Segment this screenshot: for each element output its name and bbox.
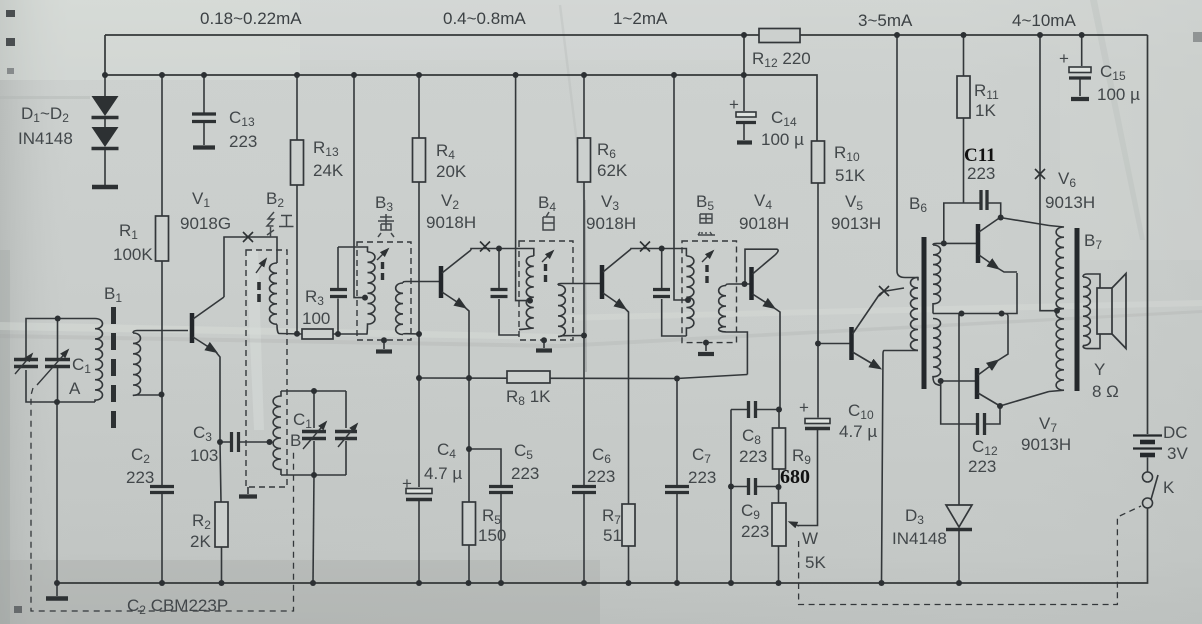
wire V3 collector to B5 [631, 249, 686, 257]
capacitor across B5 primary (x661.7) [662, 249, 687, 337]
wire second (filtered) supply rail [105, 35, 817, 141]
wire battery branch right edge [1147, 35, 1149, 434]
svg-text:62K: 62K [597, 161, 628, 180]
wire V2 emitter down [465, 307, 470, 449]
wire C11 node to V6 base node [944, 203, 964, 243]
svg-text:C11: C11 [964, 145, 996, 166]
svg-text:3~5mA: 3~5mA [858, 11, 913, 30]
ground stub under B3 box [383, 340, 385, 349]
svg-text:1~2mA: 1~2mA [613, 9, 668, 28]
potentiometer W [778, 487, 780, 503]
svg-text:DC: DC [1163, 423, 1188, 442]
inductor B3 secondary [396, 283, 403, 334]
wire V5 collector to B6 primary [879, 288, 904, 295]
resistor R9 [778, 410, 780, 488]
svg-text:24K: 24K [313, 161, 344, 180]
hanzi black [698, 214, 715, 235]
test point x on B7 supply [1035, 169, 1045, 179]
supply tap wire into B4 from rail x515.6 [516, 75, 530, 301]
wire C8/C9 left column [730, 410, 732, 584]
svg-text:9013H: 9013H [831, 214, 881, 233]
diode D2 [104, 119, 106, 127]
inductor B2 primary [270, 263, 278, 324]
wire B5 secondary top to V4 base [726, 284, 750, 286]
adjustable core arrow B2 [256, 259, 266, 273]
capacitor C9 [731, 486, 778, 488]
diode D3 [958, 314, 960, 506]
wire V1 emitter down [216, 352, 221, 443]
wire C1A column down to ground rail [56, 402, 58, 583]
speaker Y [1097, 288, 1112, 334]
ground under C13 [193, 145, 215, 149]
wire top supply rail [105, 34, 1148, 36]
capacitor across B4 primary (x499) [499, 249, 519, 336]
resistor R3 (horizontal) [302, 329, 333, 339]
svg-text:223: 223 [968, 457, 996, 476]
transistor V7 [975, 368, 980, 399]
capacitor C6 [583, 336, 585, 486]
wire B3 primary top [338, 247, 368, 252]
svg-text:100 µ: 100 µ [761, 130, 804, 149]
svg-text:0.18~0.22mA: 0.18~0.22mA [200, 9, 302, 28]
adjustable core arrow B3 [377, 249, 388, 260]
svg-text:223: 223 [741, 522, 769, 541]
electrolytic C10 [817, 344, 819, 418]
resistor R11 [963, 35, 965, 203]
svg-text:150: 150 [478, 526, 506, 545]
ground under D2 [104, 150, 106, 185]
wire B3 secondary bottom to R4 line [403, 333, 419, 336]
svg-text:3V: 3V [1167, 444, 1188, 463]
svg-text:100K: 100K [113, 245, 153, 264]
wire V4 emitter down to detector load [774, 308, 781, 410]
wire V6 collector to B7 top [1000, 218, 1049, 226]
inductor B6 secondary upper [933, 245, 941, 313]
wire V7 emitter up to common bias line [996, 314, 1009, 363]
wire B6 upper secondary top to V6 base [933, 243, 976, 245]
electrolytic C14 [743, 75, 745, 111]
electrolytic C15 [1081, 35, 1083, 66]
hanzi yellow [378, 214, 394, 237]
ground under C14 [737, 140, 752, 144]
wire V6 emitter to common bias line [998, 268, 1018, 272]
supply tap wire into B3 from rail x354 [354, 75, 365, 298]
capacitor C8 [731, 409, 780, 411]
svg-text:+: + [1059, 49, 1069, 68]
wire C1B bottom [281, 474, 346, 476]
svg-text:+: + [729, 95, 739, 114]
svg-text:8 Ω: 8 Ω [1092, 382, 1119, 401]
variable capacitor C1A main [57, 319, 59, 403]
resistor R6 [583, 75, 585, 336]
wire ground bottom rail [57, 509, 1148, 584]
wire R4 line down through AGC node [418, 334, 420, 378]
svg-text:223: 223 [739, 447, 767, 466]
svg-text:223: 223 [511, 464, 539, 483]
svg-text:9018H: 9018H [426, 213, 476, 232]
svg-text:680: 680 [780, 466, 810, 488]
wire V3 emitter down [625, 308, 629, 504]
capacitor across B3 primary (x338) [337, 247, 339, 334]
svg-text:103: 103 [190, 446, 218, 465]
switch K [1143, 472, 1153, 482]
ground under C15 [1071, 97, 1089, 101]
capacitor C12 [941, 381, 1000, 424]
inductor B5 secondary [719, 286, 726, 332]
test point x on V3 collector [640, 242, 650, 252]
inductor B4 secondary [558, 285, 565, 336]
svg-text:+: + [402, 474, 412, 493]
transistor V2 [439, 266, 444, 298]
transistor V6 [976, 224, 981, 263]
svg-text:223: 223 [967, 164, 995, 183]
transformer B6 core bar [922, 237, 927, 389]
wire B3 secondary top to V2 base [403, 282, 439, 284]
oscillator coil B2 shield box (dashed) [246, 250, 287, 487]
svg-text:4~10mA: 4~10mA [1012, 11, 1076, 30]
IF transformer B3 shield box (dashed) [357, 242, 411, 340]
svg-text:51: 51 [603, 526, 622, 545]
variable capacitor C1B main [313, 391, 315, 475]
svg-text:Y: Y [1094, 360, 1105, 379]
wire C1B bottom to ground rail [313, 475, 314, 583]
variable capacitor C1B trimmer [345, 391, 347, 475]
resistor R12 in top rail [759, 29, 800, 43]
svg-text:A: A [69, 379, 81, 398]
resistor R5 [468, 449, 470, 583]
wire B2 primary bottom to R3 [277, 325, 302, 335]
svg-text:9018H: 9018H [739, 214, 789, 233]
inductor B7 primary [1049, 226, 1064, 392]
svg-text:1K: 1K [975, 101, 996, 120]
inductor B6 primary [911, 278, 919, 351]
svg-text:B: B [290, 431, 301, 450]
supply tap wire into B5 from rail x674 [674, 75, 686, 300]
inductor B3 primary [367, 252, 375, 335]
wire B6 primary bottom down to ground rail [882, 351, 919, 584]
capacitor C5 [469, 449, 501, 485]
transistor V1 [190, 313, 195, 343]
capacitor C11 [964, 203, 1001, 218]
IF transformer B4 shield box (dashed) [519, 241, 573, 340]
junction dots [741, 32, 747, 38]
svg-text:+: + [799, 398, 809, 417]
svg-text:5K: 5K [805, 553, 826, 572]
electrolytic C4 [418, 378, 420, 487]
svg-text:0.4~0.8mA: 0.4~0.8mA [443, 9, 526, 28]
svg-text:223: 223 [587, 467, 615, 486]
wire B6 centre tap / bias line [933, 273, 1017, 314]
transformer B7 core bar [1075, 228, 1080, 391]
svg-text:2K: 2K [190, 532, 211, 551]
svg-text:4.7 µ: 4.7 µ [839, 422, 877, 441]
transistor V5 [849, 327, 854, 360]
svg-text:223: 223 [688, 468, 716, 487]
inductor B2 coupling winding [273, 391, 281, 475]
resistor R13 [296, 75, 298, 334]
wire B1 secondary top to V1 base [133, 331, 188, 334]
adjustable core arrow B5 [702, 251, 713, 262]
capacitor C13 [203, 75, 205, 113]
IF transformer B5 shield box (dashed) [682, 241, 737, 343]
wire B1 secondary bottom to R1/C2 node [133, 394, 162, 396]
supply drop to B6 primary top (3~5mA) [897, 35, 918, 278]
tuning gang mechanical link (dashed) [31, 388, 294, 611]
inductor B7 secondary [1083, 277, 1090, 346]
diode D1 [104, 75, 106, 96]
capacitor C7 [676, 379, 678, 486]
svg-text:51K: 51K [835, 166, 866, 185]
wire V1 collector up and over to B2 [224, 237, 277, 297]
inductor B4 primary [519, 256, 534, 330]
svg-text:100: 100 [302, 309, 330, 328]
wire top rail to second rail feed at x744 [743, 35, 745, 75]
inductor B6 secondary lower [933, 319, 941, 386]
transistor V4 [749, 267, 754, 300]
svg-text:9018G: 9018G [180, 214, 231, 233]
battery DC 3V [1133, 434, 1162, 436]
svg-text:20K: 20K [436, 162, 467, 181]
wire B7 secondary to speaker [1083, 274, 1100, 349]
ground stub under B2 box [247, 487, 249, 494]
hanzi red [267, 212, 294, 237]
svg-text:9018H: 9018H [586, 214, 636, 233]
adjustable core arrow B4 [542, 251, 553, 262]
wire V2 collector to B4 [471, 249, 534, 257]
wire B4 secondary top to V3 base [558, 284, 600, 286]
svg-text:223: 223 [126, 468, 154, 487]
inductor B1 primary winding [95, 319, 103, 403]
inductor B1 secondary winding [133, 333, 141, 395]
svg-text:R8 1K: R8 1K [506, 387, 551, 408]
ground stub under B5 box [705, 343, 707, 351]
svg-text:R12 220: R12 220 [752, 49, 811, 70]
svg-text:223: 223 [229, 132, 257, 151]
svg-text:W: W [802, 529, 818, 548]
svg-text:9013H: 9013H [1021, 435, 1071, 454]
svg-text:IN4148: IN4148 [892, 529, 947, 548]
wire V7 collector to B7 bottom [1000, 392, 1049, 407]
wire C1B top [281, 390, 346, 392]
resistor R4 [418, 75, 420, 334]
inductor B5 primary [686, 256, 694, 336]
wire V4 collector loop back to base [745, 249, 778, 284]
wire B7 centre tap to top rail with test x [1040, 35, 1057, 311]
ground stub bottom left [56, 583, 58, 596]
transistor V3 [600, 265, 605, 299]
resistor R10 [812, 141, 825, 183]
ferrite rod B1 (dashed bar) [111, 307, 116, 437]
potentiometer W wiper arrow [790, 522, 800, 526]
svg-text:100 µ: 100 µ [1097, 85, 1140, 104]
capacitor C2 [161, 395, 163, 486]
svg-text:K: K [1163, 478, 1175, 497]
svg-text:9013H: 9013H [1045, 193, 1095, 212]
ground stub under B4 box [543, 340, 545, 348]
variable capacitor C1A trimmer [14, 360, 38, 367]
wire B5 secondary bottom to R8 line [726, 332, 747, 375]
hanzi white [543, 212, 554, 230]
test point x on V5 collector [879, 286, 889, 296]
resistor R8 on AGC line (horizontal) [419, 375, 747, 379]
svg-text:D1~D2: D1~D2 [21, 104, 69, 125]
resistor R2 [220, 442, 222, 583]
capacitor C3 [220, 441, 270, 443]
mechanical link W to switch (dashed) [799, 506, 1141, 605]
wire B6 lower secondary bottom to V7 base [941, 380, 975, 382]
test point x on V1 collector [243, 232, 253, 242]
svg-text:IN4148: IN4148 [18, 129, 73, 148]
resistor R1 [161, 75, 163, 395]
resistor R7 [622, 504, 635, 546]
svg-text:4.7 µ: 4.7 µ [424, 464, 462, 483]
test point x on V2 collector [480, 242, 490, 252]
wire B4 secondary bottom to R6 line [558, 336, 584, 337]
antenna loop frame with C1A [26, 319, 95, 403]
